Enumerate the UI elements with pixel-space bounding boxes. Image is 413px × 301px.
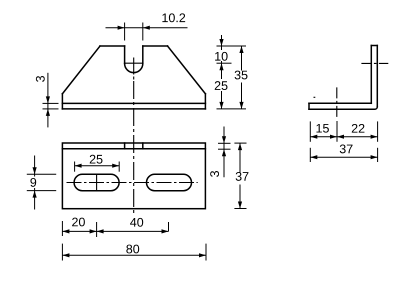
slots horizontal centerline <box>67 182 198 184</box>
dim 80 right arrow <box>199 253 206 257</box>
dim 37 top-view dimension line <box>239 143 241 208</box>
notch right wall <box>142 46 144 64</box>
dim 22 left arrow <box>337 135 344 139</box>
front view right slant edge <box>168 46 206 94</box>
dim text 22 <box>352 124 365 133</box>
dim 40 right arrow <box>162 229 169 233</box>
front view base top line <box>62 102 205 104</box>
dim 3 top-view lower arrow <box>222 149 226 156</box>
notch left wall <box>124 46 126 64</box>
dim 10.2 right extension line <box>142 23 144 41</box>
dim 15/22 dimension line <box>310 136 377 138</box>
notch arc center horizontal line <box>124 62 143 64</box>
dim text 25 slot <box>90 155 103 164</box>
front view vertical centerline <box>133 58 135 80</box>
dim 10 top arrow <box>219 39 223 46</box>
dim 25 slot right extension <box>118 162 120 172</box>
dim 3 top-view dimension line <box>223 127 225 178</box>
dim 80 left arrow <box>62 253 69 257</box>
dim 3 top-view lower extension <box>218 148 231 150</box>
dim 35 bottom arrow <box>239 102 243 109</box>
dim 37 top-view upper extension <box>234 142 246 144</box>
dim 80 dimension line <box>62 254 206 256</box>
dim 37 side left extension <box>309 148 311 162</box>
dim 37 side dimension line <box>310 156 377 158</box>
dim 9 lower arrow <box>33 191 37 198</box>
dim 9 lower extension <box>27 190 56 192</box>
dim 3 front lower extension line <box>43 108 59 110</box>
dim text 37 side <box>340 144 353 153</box>
dim 20/40 middle extension <box>96 222 98 237</box>
side view small dot mark <box>314 96 316 98</box>
dim 25 slot right arrow <box>112 164 119 168</box>
extension line at arc center level <box>217 62 232 64</box>
side view horizontal leg top line <box>309 102 371 104</box>
extension line at base bottom level <box>217 108 247 110</box>
dim text 9 <box>28 177 39 189</box>
front view top edge right segment <box>143 45 168 47</box>
dim 9 upper arrow <box>33 167 37 174</box>
dim 10.2 dimension line <box>106 27 188 29</box>
dim 40 right extension <box>168 222 170 231</box>
front view top edge left segment <box>100 45 125 47</box>
dim text 3 front rotated <box>36 76 45 82</box>
dim 9 dimension line <box>34 156 36 210</box>
front view left slant edge <box>62 46 100 94</box>
dim text 15 <box>316 124 328 133</box>
dim 20 left arrow <box>62 229 69 233</box>
front view left vertical edge <box>61 94 63 109</box>
side view hole horizontal centerline <box>361 62 388 64</box>
dim 37 top-view lower arrow <box>238 202 242 209</box>
top view bend line <box>62 148 205 150</box>
dim 25 bottom arrow <box>219 102 223 109</box>
dim 37 top-view lower extension <box>234 208 246 210</box>
dim text 25 front <box>213 79 229 91</box>
dim 20/40 dimension line <box>62 230 168 232</box>
side view vertical leg top cap <box>371 45 377 47</box>
front view base bottom line <box>62 108 205 110</box>
dim 37 side right arrow <box>371 155 378 159</box>
dim 3 top-view upper arrow <box>222 136 226 143</box>
dim text 35 <box>233 71 249 83</box>
left slot <box>74 174 119 190</box>
dim 37 side right extension <box>377 148 379 162</box>
side view vertical leg right line <box>376 46 378 107</box>
dim text 37 top-view <box>234 173 250 185</box>
top view notch tick left <box>124 143 126 149</box>
dim 35 dimension line <box>241 46 243 109</box>
dim 80 right extension <box>205 244 207 261</box>
front view right vertical edge <box>204 94 206 109</box>
dim 3 top-view upper extension <box>218 142 231 144</box>
dim 22 right extension <box>377 121 379 141</box>
side view vertical centerline <box>336 87 338 117</box>
notch bottom arc <box>125 64 143 73</box>
top view notch tick right <box>142 143 144 149</box>
dim 25 slot dimension line <box>75 165 120 167</box>
side view left end cap <box>308 103 310 109</box>
dim 20 right arrow <box>90 229 97 233</box>
dim 35 top arrow <box>239 46 243 53</box>
dim 15 left arrow <box>310 135 317 139</box>
dim 3 front upper extension line <box>43 102 59 104</box>
dim 3 front dimension line <box>47 73 49 128</box>
left slot vertical center tick <box>96 175 98 191</box>
dim text 3 top-view rotated <box>210 171 219 177</box>
dim 3 front lower arrow <box>46 109 50 116</box>
dim 10.2 left extension line <box>124 23 126 41</box>
top view rectangle outline <box>62 143 205 209</box>
dim 10/25 middle arrow <box>219 63 223 70</box>
dim 22 right arrow <box>371 135 378 139</box>
dim 10/25 shared dimension line <box>221 35 223 109</box>
dim 25 slot left arrow <box>75 164 82 168</box>
dim 10.2 right arrow <box>143 26 150 30</box>
dim 9 upper extension <box>27 173 56 175</box>
side view vertical leg left line <box>370 46 372 104</box>
dim 80 left extension <box>61 244 63 261</box>
dim 40 left arrow <box>97 229 104 233</box>
side view horizontal leg bottom line with corner fillet <box>309 107 377 110</box>
dim text 40 <box>130 218 143 227</box>
dim 15 right arrow <box>330 135 337 139</box>
dim 37 top-view upper arrow <box>238 143 242 150</box>
dim text 10 <box>214 50 229 61</box>
dim 15/22 middle extension <box>336 121 338 142</box>
dim 25 slot left extension <box>74 162 76 172</box>
dim 3 front upper arrow <box>46 96 50 103</box>
dim 10.2 left arrow <box>118 26 125 30</box>
dim 20 left extension <box>61 221 63 236</box>
dim text 80 <box>126 245 139 254</box>
dim text 10.2 <box>162 13 185 22</box>
right slot <box>147 174 192 190</box>
dim 37 side left arrow <box>310 155 317 159</box>
dim text 20 <box>72 218 85 227</box>
dim 15 left extension <box>309 121 311 141</box>
extension line at top edge level <box>217 45 247 47</box>
